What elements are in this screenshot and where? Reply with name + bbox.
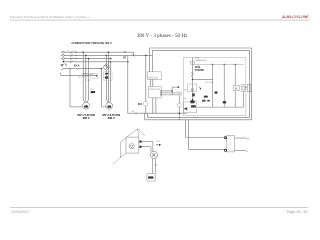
svg-text:380 V: 380 V (108, 116, 115, 120)
wire terminal a to pump (142, 142, 153, 152)
svg-text:380 V: 380 V (83, 116, 90, 120)
remote connector box (226, 136, 234, 152)
stub to supply connector (245, 87, 247, 89)
link wires between relay boxes (150, 80, 153, 87)
cyclone left face (120, 138, 126, 158)
overload 2F1 element a (dark) (105, 73, 109, 75)
pointer arrowhead (dark) (159, 144, 161, 146)
svg-text:Rep 1: Rep 1 (193, 117, 198, 119)
overload 2F1 element b (dark) (105, 76, 109, 78)
cyclone top cover (126, 129, 138, 137)
svg-text:ALMA CYCLONE: ALMA CYCLONE (281, 15, 309, 19)
svg-text:2KM1 4567: 2KM1 4567 (149, 77, 159, 79)
hour meter label 4M (bold) (138, 102, 143, 106)
svg-text:1F1: 1F1 (90, 89, 93, 91)
cyclone support diagonal (113, 156, 122, 164)
wire to motor terminals (193, 78, 213, 80)
level switch label (195, 56, 207, 62)
SCHEMATIC4 (183, 56, 250, 119)
hour meter 4M circle (144, 102, 148, 106)
pump label 2PS (154, 164, 158, 166)
bold mark b (dark) (202, 100, 206, 102)
device 2Q inner curl (dark) (105, 66, 107, 68)
pump motor box label (235, 87, 238, 91)
pump pictogram inner marks (dark) (191, 105, 196, 108)
svg-text:2KM2 0 134: 2KM2 0 134 (149, 89, 159, 91)
branch 2 phase wires (106, 52, 110, 99)
motor 1M inner mark (84, 105, 88, 107)
contactor labels (tiny) (78, 74, 94, 82)
pump circle inner mark (152, 153, 155, 156)
wire N (64, 61, 128, 63)
wire L1 (64, 51, 133, 53)
relay box 2KM1 text (149, 77, 159, 79)
connector output label a (246, 138, 249, 140)
junction dot on feed (192, 99, 194, 101)
pump base (147, 174, 155, 182)
svg-text:1 U1 1V1: 1 U1 1V1 (205, 82, 213, 84)
svg-text:ALARME NIV: ALARME NIV (195, 59, 207, 62)
SCHEMATIC5 (113, 120, 250, 181)
motor 2M circle (106, 102, 113, 109)
pump circle (150, 151, 157, 158)
bold mark a (dark) (204, 96, 208, 98)
SCHEMATIC3 (145, 48, 252, 120)
PE lower dot (96, 75, 98, 77)
level switch comp (191, 62, 194, 65)
svg-text:1KM: 1KM (90, 74, 94, 76)
pump pictogram arrow (dark) (184, 107, 188, 110)
comp on feed (dark) (192, 93, 195, 96)
internal feed wire (192, 58, 194, 102)
svg-text:2F: 2F (123, 56, 127, 60)
connector output wire b (235, 149, 246, 151)
neutral drop wire (127, 55, 129, 113)
cyclone chute line (138, 129, 145, 136)
relay output wire a end dot (177, 86, 179, 88)
relay box 2KM1 (148, 72, 162, 80)
cyclone terminal b (dark) (139, 146, 141, 148)
header rule (10, 19, 310, 21)
wire to remote connector a (185, 120, 226, 138)
PE bus lower (61, 73, 97, 76)
SCHEMATIC (60, 41, 152, 107)
svg-text:Formation Technique & Notice d: Formation Technique & Notice d'Utilisati… (10, 15, 89, 19)
relay box 2KM2 (149, 87, 162, 98)
control loop outer wire (145, 48, 252, 120)
dark oval on wire V (223, 101, 227, 104)
relay output wire a (161, 87, 178, 95)
svg-text:2M: 2M (131, 111, 134, 113)
corner stub dot (200, 88, 201, 89)
drop wire W (234, 64, 236, 107)
phase labels (67, 50, 75, 52)
bold mark c (dark) (207, 100, 210, 102)
svg-text:1KA: 1KA (74, 63, 81, 67)
svg-text:PH: PH (246, 138, 249, 140)
terminal strip (242, 85, 245, 92)
corner stub near M wire (199, 88, 201, 90)
pump motor box M (234, 85, 240, 90)
junction dot on bus A (179, 112, 181, 114)
wire to remote connector b (189, 120, 227, 150)
pump pictogram box (184, 102, 197, 113)
motor 2M arrows (106, 100, 110, 103)
hour meter 4M wire (145, 55, 148, 119)
thermal relay 1F label (90, 89, 93, 91)
terminal N (dark) (62, 61, 64, 63)
wire L2 (64, 54, 152, 56)
cyclone body front (126, 137, 139, 153)
side label lower (184, 98, 187, 100)
svg-text:380 V - 3 phases - 50 Hz: 380 V - 3 phases - 50 Hz (137, 33, 188, 39)
motor 1M circle (83, 102, 90, 109)
relay 1KA box (187, 84, 196, 91)
pump feed wires (152, 158, 155, 173)
relay 1KA ring (191, 89, 193, 91)
connector output label b (246, 151, 248, 153)
fuse link corner to L2 level (132, 52, 134, 56)
thermal relay 1F element (dark) (91, 91, 96, 93)
relay output wire b (161, 92, 179, 94)
cyclone terminal a (dark) (139, 141, 141, 143)
svg-text:POMPE: POMPE (195, 68, 205, 72)
overload 2F1 box (104, 72, 113, 80)
svg-text:ALIMENTATION TRIPHASE 380 V: ALIMENTATION TRIPHASE 380 V (71, 41, 112, 45)
branch 1 phase wires (83, 52, 88, 99)
PE text (60, 69, 63, 71)
remote connector label (229, 144, 232, 146)
pump base dark bar (148, 176, 154, 178)
control bus dots (212, 64, 236, 65)
PE drop to motor 1M (70, 69, 83, 107)
float switch circle (177, 103, 181, 107)
svg-text:Page 26 / 30: Page 26 / 30 (287, 210, 308, 214)
enclosure box (183, 58, 246, 116)
motor 2M inner mark (107, 106, 111, 108)
control bus A (128, 112, 187, 114)
sensor wire with float switch (178, 96, 180, 120)
hour meter 4M tap dot (145, 55, 147, 57)
PE bus upper (63, 68, 102, 70)
bus A label (131, 111, 134, 113)
cyclone window (129, 144, 134, 149)
motor 2M label (103, 113, 121, 120)
fuse label 2F (bold) (123, 56, 127, 60)
terminal X1 (L1) (61, 51, 64, 53)
svg-text:12/04/2013: 12/04/2013 (11, 210, 29, 214)
relay 1KA side label (184, 89, 187, 91)
connector entry marks (dark) (224, 137, 226, 152)
drop wire U (212, 64, 214, 107)
output terminal circles (179, 92, 181, 96)
supply connector on loop (247, 84, 250, 92)
enclosure bottom label (193, 117, 198, 119)
pump pictogram dark label above (190, 100, 194, 103)
terminal X3 (L3) (61, 58, 64, 60)
svg-text:3M: 3M (157, 141, 160, 143)
svg-text:497: 497 (87, 80, 90, 82)
comp near wire U (dark) (215, 91, 218, 93)
contactor coil label 2KM POMPE (bold) (195, 65, 205, 72)
wire L3 (64, 57, 111, 59)
pump label near corner (157, 141, 160, 143)
motor 1M label (77, 113, 95, 120)
control bus (light) (193, 63, 243, 65)
svg-text:1: 1 (74, 50, 75, 52)
footer rule (10, 207, 308, 209)
svg-text:L1: L1 (67, 50, 69, 52)
connector output wire a (235, 137, 246, 139)
motor 1M arrows (83, 100, 88, 103)
contactor 1KM poles (82, 74, 89, 77)
fuse 2F on L1 (124, 51, 127, 53)
junction dots on supply (82, 51, 128, 62)
terminal X2 (L2) (61, 54, 64, 56)
junction dot (171, 90, 173, 92)
wire labels 1U1 1V1 (205, 82, 213, 84)
isolator label 1Q1 (bold) (74, 63, 81, 67)
svg-text:4M: 4M (138, 102, 143, 106)
contact symbol (190, 73, 193, 78)
relay output wire c (161, 94, 179, 96)
device 2Q circle (104, 65, 109, 70)
wire terminal b to pump (142, 147, 151, 152)
control loop inner wire (147, 50, 249, 117)
relay box 2KM2 bottom pins (153, 98, 156, 113)
PE symbol (61, 63, 67, 66)
junction dot (192, 79, 194, 81)
SCHEMATIC2 (77, 52, 187, 120)
label ALIMENTATION TRIPHASE 380 V (71, 41, 112, 45)
relay box 2KM2 pin dots (160, 90, 161, 95)
internal bottom bus (197, 92, 244, 108)
pointer arrow 3M (156, 144, 159, 146)
PE drop to motor 2M (102, 69, 106, 107)
drop wire V (223, 64, 225, 107)
relay box 2KM2 text (149, 89, 159, 91)
PE bus end dot (101, 68, 103, 70)
thermal relay 1F box (91, 73, 98, 78)
